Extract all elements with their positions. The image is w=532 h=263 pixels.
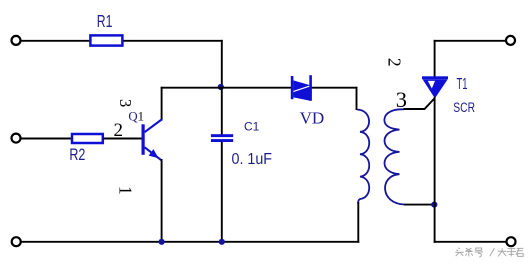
junction emitter-bottom	[159, 239, 165, 245]
wire corner down to winding top	[356, 87, 358, 110]
wire node A down to junction	[221, 40, 223, 88]
terminal bottom-right	[507, 237, 516, 246]
wire R2 to base	[104, 138, 142, 140]
wire terminal to R2	[21, 138, 73, 140]
svg-text:T1: T1	[457, 76, 468, 93]
wire terminal to R1	[21, 40, 90, 42]
wire cathode to terminal bottom-right	[434, 241, 507, 243]
transformer primary winding	[357, 110, 369, 204]
svg-text:1: 1	[116, 186, 136, 195]
wire C1 bottom	[221, 142, 223, 243]
wire C1 top	[221, 88, 223, 135]
wire collector vertical	[161, 87, 163, 121]
junction at cathode line	[431, 202, 437, 208]
wire emitter down	[161, 159, 163, 243]
wire primary bottom down	[357, 202, 359, 243]
resistor R1	[90, 35, 122, 45]
svg-text:R2: R2	[69, 146, 85, 164]
thyristor T1	[422, 76, 448, 98]
wire R1 to node A	[124, 40, 223, 42]
svg-text:3: 3	[116, 99, 135, 107]
wire cathode down	[434, 97, 436, 243]
junction C1-bottom	[219, 239, 225, 245]
svg-text:R1: R1	[97, 11, 113, 31]
svg-text:VD: VD	[300, 109, 325, 128]
svg-text:Q1: Q1	[128, 109, 144, 123]
diode VD (bidirectional trigger)	[291, 75, 312, 101]
terminal top-right	[506, 36, 515, 45]
transistor Q1	[142, 119, 162, 160]
svg-text:2: 2	[385, 58, 405, 67]
wire gate	[404, 98, 435, 109]
terminal bottom-left	[12, 237, 21, 246]
wire bottom rail	[21, 241, 360, 243]
svg-text:C1: C1	[244, 120, 260, 134]
watermark 头条号 / 大车君	[455, 248, 523, 257]
junction at C1 top net	[218, 84, 224, 90]
wire anode down	[434, 40, 436, 78]
svg-text:2: 2	[114, 120, 124, 141]
wire junction to collector branch	[161, 87, 222, 89]
terminal top-left	[12, 36, 21, 45]
capacitor C1	[211, 134, 233, 142]
svg-text:0. 1uF: 0. 1uF	[232, 151, 273, 168]
wire diode VD to transformer corner	[311, 87, 357, 89]
transformer secondary winding	[384, 109, 404, 204]
wire terminal to SCR anode	[434, 40, 506, 42]
wire secondary bottom to cathode line	[404, 204, 436, 206]
svg-text:SCR: SCR	[453, 100, 475, 115]
terminal mid-left	[12, 134, 21, 143]
wire junction to diode VD	[222, 87, 292, 89]
resistor R2	[72, 134, 103, 143]
